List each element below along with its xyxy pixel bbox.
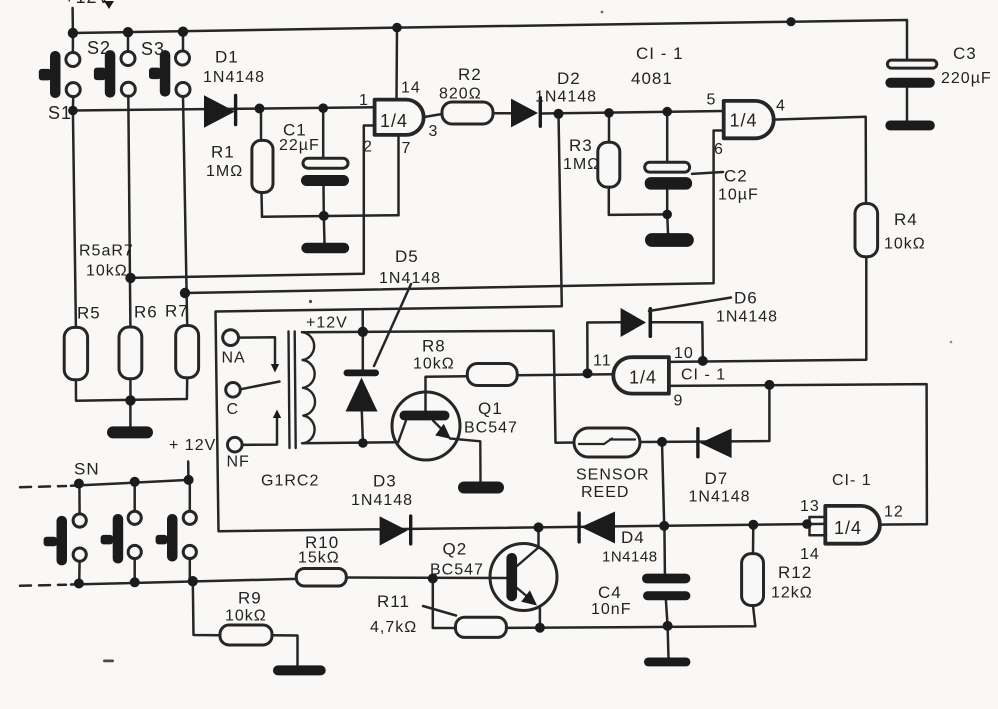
svg-text:+ 12V: + 12V [169,437,216,454]
svg-text:BC547: BC547 [464,420,518,437]
svg-text:Q1: Q1 [478,399,503,418]
svg-text:R6: R6 [134,303,158,322]
svg-text:1MΩ: 1MΩ [563,156,600,173]
svg-text:1MΩ: 1MΩ [206,163,243,180]
svg-text:R5: R5 [77,304,101,323]
svg-text:10: 10 [674,345,694,362]
svg-text:1N4148: 1N4148 [716,309,778,326]
svg-text:R1: R1 [211,143,235,162]
svg-text:1N4148: 1N4148 [689,489,751,506]
svg-text:7: 7 [402,140,412,157]
svg-text:10kΩ: 10kΩ [413,356,455,373]
svg-text:C2: C2 [724,167,748,186]
svg-text:R7: R7 [165,302,189,321]
svg-text:14: 14 [401,80,421,97]
svg-text:1N4148: 1N4148 [379,270,441,287]
svg-text:NF: NF [227,454,250,471]
svg-text:220µF: 220µF [941,70,992,87]
svg-text:NA: NA [222,350,246,367]
svg-text:R3: R3 [569,136,593,155]
svg-text:11: 11 [593,353,612,370]
svg-text:+12V: +12V [64,0,111,7]
svg-text:SN: SN [74,460,100,479]
svg-text:R4: R4 [894,210,918,229]
svg-text:S1: S1 [48,103,72,123]
svg-text:R2: R2 [458,65,482,84]
svg-text:REED: REED [581,484,629,501]
svg-text:13: 13 [800,498,820,515]
svg-text:R12: R12 [778,563,812,582]
svg-text:15kΩ: 15kΩ [298,550,340,567]
svg-text:22µF: 22µF [279,137,320,154]
svg-text:D2: D2 [557,69,581,88]
svg-text:S2: S2 [87,38,111,58]
svg-text:6: 6 [714,141,724,158]
svg-text:BC547: BC547 [430,562,484,579]
svg-text:10µF: 10µF [718,187,759,204]
svg-text:SENSOR: SENSOR [576,467,650,484]
svg-text:12: 12 [884,504,904,521]
svg-text:1/4: 1/4 [380,111,408,131]
svg-text:R11: R11 [377,592,410,611]
svg-text:1/4: 1/4 [629,368,657,388]
svg-text:D4: D4 [621,528,645,547]
svg-text:D3: D3 [373,472,397,491]
svg-text:D1: D1 [215,48,239,67]
svg-text:C4: C4 [598,583,622,602]
svg-text:Q2: Q2 [443,540,468,559]
svg-text:1/4: 1/4 [834,518,862,538]
svg-text:2: 2 [363,139,373,156]
svg-text:G1RC2: G1RC2 [261,473,319,490]
svg-text:1/4: 1/4 [730,111,758,131]
svg-text:12kΩ: 12kΩ [771,585,813,602]
svg-text:820Ω: 820Ω [439,86,482,103]
svg-text:CI- 1: CI- 1 [832,472,872,489]
svg-text:1: 1 [359,92,369,109]
svg-text:1N4148: 1N4148 [602,549,658,566]
svg-text:CI - 1: CI - 1 [636,44,684,63]
svg-text:10kΩ: 10kΩ [884,236,926,253]
svg-text:10kΩ: 10kΩ [86,263,128,280]
svg-text:C3: C3 [953,44,977,63]
svg-text:R9: R9 [238,589,262,608]
svg-text:10nF: 10nF [591,601,631,618]
svg-text:1N4148: 1N4148 [203,69,265,86]
svg-text:1N4148: 1N4148 [351,492,413,509]
svg-text:14: 14 [800,546,820,563]
svg-text:4,7kΩ: 4,7kΩ [370,619,417,636]
svg-text:+12V: +12V [306,315,348,332]
svg-text:D6: D6 [734,289,758,308]
svg-text:4: 4 [776,98,786,115]
svg-text:R8: R8 [422,337,446,356]
svg-text:D7: D7 [705,469,729,488]
svg-text:D5: D5 [395,247,419,266]
svg-text:CI - 1: CI - 1 [681,367,726,384]
svg-text:R5aR7: R5aR7 [79,243,134,260]
svg-text:C: C [227,401,240,418]
svg-text:4081: 4081 [631,69,673,88]
svg-text:1N4148: 1N4148 [535,89,597,106]
svg-text:3: 3 [429,123,439,140]
svg-text:10kΩ: 10kΩ [225,608,267,625]
svg-text:9: 9 [674,393,684,410]
svg-text:5: 5 [707,92,717,109]
svg-text:S3: S3 [141,39,165,59]
